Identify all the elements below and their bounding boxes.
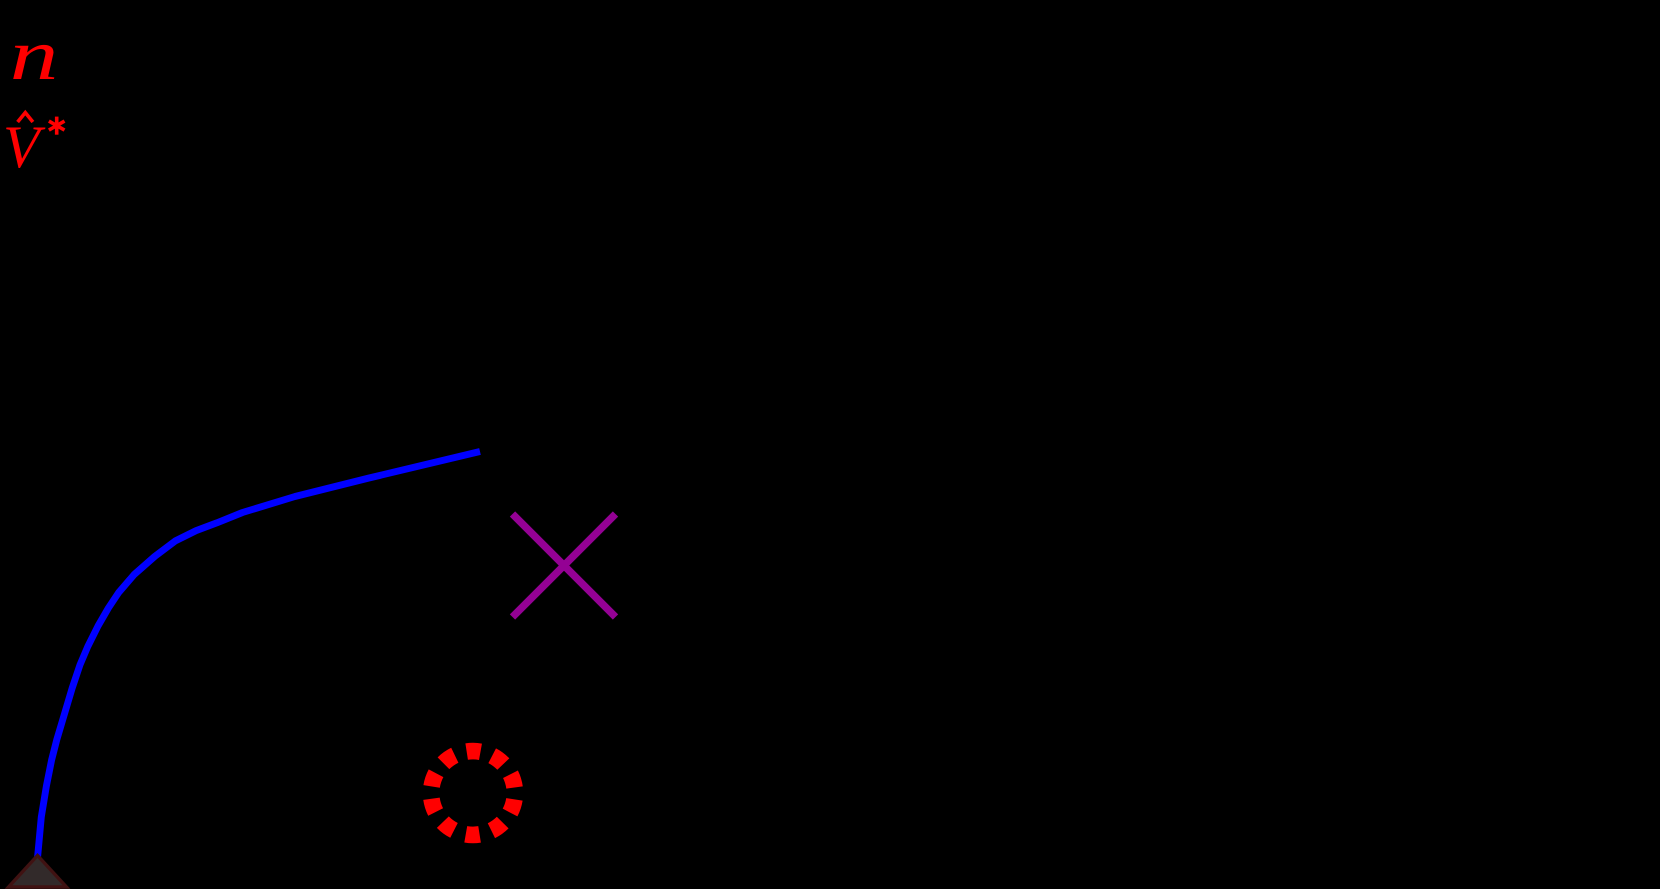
svg-text:n: n bbox=[10, 16, 59, 95]
wire blue trajectory curve bbox=[38, 452, 481, 859]
node obstacle dashed circle bbox=[431, 751, 515, 835]
node start marker triangle bbox=[9, 856, 67, 888]
svg-text:V: V bbox=[3, 114, 46, 180]
label asterisk superscript bbox=[49, 117, 65, 135]
label n bbox=[10, 16, 59, 95]
label hat accent over V bbox=[18, 113, 33, 122]
node goal marker X bbox=[513, 514, 616, 617]
